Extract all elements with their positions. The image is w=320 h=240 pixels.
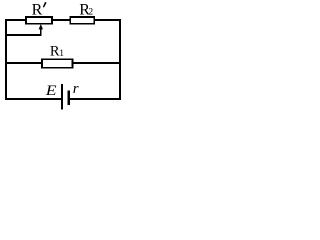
wire: middle branch through R1: [5, 62, 121, 64]
label R': [32, 2, 47, 19]
label R2: [79, 1, 93, 18]
wire: wiper branch from left wire: [5, 34, 41, 36]
svg-text:R: R: [32, 2, 43, 19]
battery long plate (positive): [61, 84, 63, 110]
label R1: [50, 44, 64, 60]
rheostat wiper arrow: [39, 24, 43, 36]
wire: bottom right segment (from battery): [70, 98, 121, 100]
battery short plate (negative): [68, 91, 70, 106]
resistor R1 body: [42, 59, 73, 67]
svg-text:2: 2: [88, 7, 93, 17]
svg-text:E: E: [45, 83, 57, 99]
resistor R2 body: [70, 17, 94, 24]
resistor R' body (rheostat): [26, 17, 52, 24]
wire: right vertical (outer loop): [119, 19, 121, 100]
svg-text:r: r: [73, 81, 79, 97]
wire: top horizontal (outer loop): [5, 19, 121, 21]
svg-text:1: 1: [59, 49, 64, 59]
wire: bottom left segment (to battery): [5, 98, 61, 100]
wire: left vertical (outer loop): [5, 19, 7, 100]
